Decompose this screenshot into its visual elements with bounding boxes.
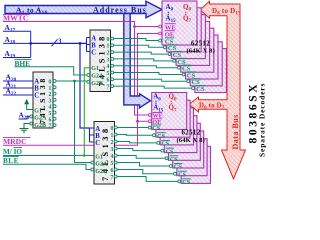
node select bus junction: [29, 42, 32, 45]
memory chip low bank 6 body: [173, 131, 204, 168]
svg-text:Separate Decoders: Separate Decoders: [258, 83, 267, 157]
svg-text:CS: CS: [157, 133, 165, 140]
address bus A1-A16 horizontal band with right arrowhead: [5, 1, 162, 17]
memory chip high bank 1 body: [162, 1, 197, 45]
wire MWTC net to WE pins of both banks: [3, 22, 158, 116]
svg-text:CS: CS: [174, 164, 182, 171]
wire U1 output 7 to CS high chip 8: [114, 86, 191, 88]
decoder U2 74LS138 second level body: [33, 72, 53, 128]
svg-text:G2A: G2A: [91, 74, 104, 80]
wire U1 output 4 to CS high chip 5: [114, 66, 177, 68]
svg-text:Data Bus: Data Bus: [231, 114, 240, 149]
node MWTC branch: [133, 25, 136, 28]
svg-text:0: 0: [49, 80, 52, 86]
decoder U3 74LS138 low bank body: [94, 122, 115, 185]
svg-text:3: 3: [111, 147, 114, 153]
wire A21 to U2 B: [3, 87, 33, 89]
decoder U1 input bracket: [87, 38, 91, 52]
memory chip low bank 3 body: [160, 108, 193, 145]
node select bus branch to U3: [79, 42, 82, 45]
svg-text:5: 5: [49, 111, 52, 117]
svg-text:CS: CS: [170, 156, 178, 163]
wire select bus down to U3: [80, 43, 90, 128]
svg-text:BLE: BLE: [3, 157, 19, 165]
svg-text:62512: 62512: [182, 128, 201, 136]
wire U2 output 0 to U1 G2B and branch to U3 G2A: [56, 81, 90, 163]
wire BHE to U1 G2A: [15, 67, 87, 75]
svg-text:62512: 62512: [191, 39, 210, 47]
wire 3-bit select bus to U1: [31, 42, 87, 44]
wire U1 output 6 to CS high chip 7: [114, 79, 187, 81]
svg-text:G2B: G2B: [34, 123, 46, 129]
svg-text:4: 4: [107, 64, 110, 70]
wire A17-A19 junction vertical: [30, 31, 32, 57]
svg-text:(64K X 8): (64K X 8): [177, 137, 205, 144]
memory chip high bank 5 body: [181, 28, 214, 72]
svg-text:OE: OE: [165, 31, 175, 38]
svg-text:C: C: [91, 49, 96, 56]
wire MWTC horizontal redrawn over band: [120, 22, 158, 27]
wire U1 output 0 to CS high chip 1: [114, 39, 158, 41]
wire U3 output 1 to CS low chip 2: [117, 134, 152, 137]
svg-text:5: 5: [107, 71, 110, 77]
data bus red band: D8-D15 arrow, Data Bus vertical, D0-D7 arrow, bottom arrowhead: [189, 1, 246, 179]
svg-text:7: 7: [107, 85, 110, 91]
svg-text:A: A: [34, 79, 39, 86]
wire G1 net bright green joining U1 G1 and M/IO: [84, 68, 90, 156]
wire U1 output 3 to CS high chip 4: [114, 59, 173, 61]
svg-text:CS: CS: [182, 179, 190, 186]
svg-text:B: B: [95, 133, 100, 140]
svg-text:1: 1: [49, 86, 52, 92]
decoder U3 input bracket: [90, 128, 95, 142]
svg-text:1: 1: [111, 133, 114, 139]
bus width slash 3: [52, 39, 58, 46]
wire U1 output 2 to CS high chip 3: [114, 52, 168, 54]
memory chip high bank 2 body: [167, 8, 202, 52]
svg-text:G2B: G2B: [95, 169, 107, 175]
svg-text:CS: CS: [178, 171, 186, 178]
wire U3 output 5 to CS low chip 6: [117, 163, 169, 167]
svg-text:C: C: [34, 93, 39, 100]
svg-text:MWTC: MWTC: [3, 14, 28, 23]
memory chip low bank 8 body: [181, 146, 210, 183]
svg-text:3: 3: [58, 37, 62, 45]
wire U1 output 1 to CS high chip 2: [114, 45, 163, 47]
wire U3 output 4 to CS low chip 5: [117, 156, 165, 159]
memory chip high bank 7 body: [190, 42, 222, 86]
svg-text:3: 3: [107, 57, 110, 63]
svg-text:MRDC: MRDC: [3, 137, 27, 146]
svg-text:G1: G1: [34, 108, 42, 114]
svg-text:CS: CS: [152, 125, 160, 132]
svg-text:B: B: [91, 42, 96, 49]
ground symbol: [20, 128, 29, 130]
svg-text:5: 5: [111, 161, 114, 167]
svg-text:2: 2: [107, 51, 110, 57]
svg-text:1: 1: [107, 44, 110, 50]
memory chip low bank 7 body: [177, 139, 207, 176]
memory chip low bank 2 body: [156, 100, 190, 137]
svg-text:Address Bus: Address Bus: [93, 5, 147, 14]
svg-text:A: A: [95, 126, 100, 133]
svg-text:6: 6: [107, 78, 110, 84]
svg-text:G1: G1: [95, 154, 103, 160]
svg-text:G2A: G2A: [95, 162, 108, 168]
svg-text:M/ IO: M/ IO: [3, 148, 22, 156]
wire M/IO to U3 G1: [3, 155, 94, 157]
memory chip low bank 5 body: [169, 123, 201, 160]
wire U1 output 5 to CS high chip 6: [114, 73, 182, 75]
wire A19: [3, 57, 31, 59]
svg-text:A: A: [91, 35, 96, 42]
svg-text:CS: CS: [166, 148, 174, 155]
svg-text:7: 7: [49, 124, 52, 130]
svg-text:G2A: G2A: [34, 116, 47, 122]
node MRDC branch: [136, 120, 139, 123]
memory chip high bank 3 body: [171, 15, 205, 59]
wire A18: [3, 42, 31, 44]
memory chip high bank 4 body: [176, 21, 210, 65]
wire U3 output 2 to CS low chip 3: [117, 142, 156, 143]
svg-text:0: 0: [107, 37, 110, 43]
wire A22 to U2 C: [3, 94, 33, 96]
memory chip high bank 8 body: [195, 49, 227, 93]
wire A17: [3, 30, 31, 32]
svg-text:B: B: [34, 86, 39, 93]
memory chip high bank 6 body: [186, 35, 219, 79]
wire U3 output 0 to CS low chip 1: [117, 127, 148, 129]
wire U2 G2B to ground: [24, 124, 29, 129]
wire U3 output 3 to CS low chip 4: [117, 149, 160, 151]
svg-text:6: 6: [111, 168, 114, 174]
svg-text:(64K X 8): (64K X 8): [187, 48, 215, 55]
memory chip low bank 4 body: [164, 116, 197, 153]
svg-text:C: C: [95, 140, 100, 147]
decoder U1 74LS138 high bank body: [90, 30, 111, 92]
vcc arrow to U2 G1: [27, 104, 33, 110]
svg-text:CS: CS: [161, 141, 169, 148]
svg-text:2: 2: [49, 92, 52, 98]
node U2 output branch: [73, 80, 76, 83]
node M/IO G1 junction: [83, 154, 86, 157]
wire U3 output 7 to CS low chip 8: [117, 177, 177, 182]
wire U3 output 6 to CS low chip 7: [117, 170, 173, 174]
svg-text:CS: CS: [196, 86, 205, 93]
svg-text:2: 2: [111, 140, 114, 146]
memory chip low bank 1 body: [152, 93, 187, 130]
svg-text:4: 4: [49, 105, 52, 111]
svg-text:G1: G1: [91, 66, 99, 72]
wire BLE to U3 G2B: [3, 164, 91, 169]
wire MRDC net to OE pins of both banks: [3, 34, 158, 146]
wire A20 to U2 A: [3, 80, 33, 82]
svg-text:G2B: G2B: [91, 81, 103, 87]
svg-text:7: 7: [111, 175, 114, 181]
address bus vertical branch band to low bank with elbow arrowhead: [124, 14, 151, 108]
svg-text:3: 3: [49, 98, 52, 104]
wire A23 to U2 G2A: [19, 117, 30, 120]
svg-text:6: 6: [49, 117, 52, 123]
svg-text:4: 4: [111, 154, 114, 160]
svg-text:0: 0: [111, 126, 114, 132]
